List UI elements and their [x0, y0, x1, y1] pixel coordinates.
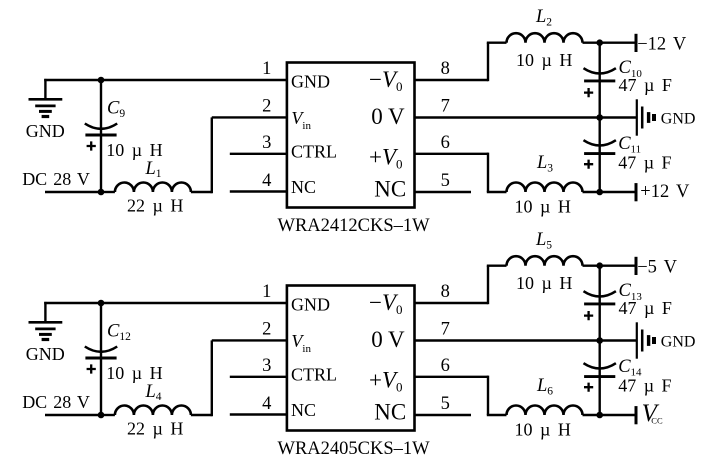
svg-text:7: 7 — [441, 320, 450, 340]
capacitor C13 lead upper — [599, 266, 601, 304]
svg-text:47 µ F: 47 µ F — [619, 298, 672, 318]
svg-text:22 µ H: 22 µ H — [127, 196, 183, 216]
wire corner to inductor L6 — [487, 414, 507, 416]
pin name Vin pin2 (top) — [291, 108, 311, 132]
wire pin 5 stub (top) — [415, 191, 472, 193]
terminal bar +12V (top) — [635, 183, 638, 201]
capacitor C10 polarity + — [584, 88, 593, 97]
pin number 2 (bottom) — [262, 320, 271, 340]
capacitor C12 polarity + — [87, 364, 96, 373]
pin number 4 (top) — [262, 171, 271, 191]
pin number 5 (bottom) — [441, 394, 450, 414]
wire input-ground corner to node (top) — [44, 79, 101, 81]
pin number 4 (bottom) — [262, 394, 271, 414]
svg-text:−5 V: −5 V — [637, 258, 677, 278]
svg-text:47 µ F: 47 µ F — [619, 75, 672, 95]
wire pin 2 (top) — [212, 116, 287, 118]
wire pin 3 stub (top) — [230, 153, 287, 155]
wire riser to pin 2 (bottom) — [211, 340, 213, 416]
inductor L6 — [507, 406, 583, 416]
svg-text:2: 2 — [262, 320, 271, 340]
svg-text:10 µ H: 10 µ H — [106, 363, 162, 383]
label C10 — [619, 58, 643, 80]
capacitor C10 lead upper — [599, 43, 601, 81]
pin name Vin pin2 (bottom) — [291, 331, 311, 355]
wire pin 8 to corner (top) — [415, 79, 489, 81]
svg-text:8: 8 — [441, 59, 450, 79]
pin number 5 (top) — [441, 171, 450, 191]
svg-text:DC 28 V: DC 28 V — [22, 392, 90, 412]
label +12V (top) — [640, 182, 690, 202]
svg-text:WRA2405CKS–1W: WRA2405CKS–1W — [278, 439, 431, 459]
capacitor C10 lead lower — [599, 81, 601, 118]
value 47 uF of C14 — [618, 376, 671, 396]
wire pin 6 to corner (top) — [415, 153, 489, 155]
value 47 uF of C13 — [619, 298, 672, 318]
wire pin 8 to corner (bottom) — [415, 302, 489, 304]
wire pin 6 to corner (bottom) — [415, 376, 489, 378]
node −5 V junction (bottom) — [596, 262, 603, 269]
label C14 — [618, 357, 642, 379]
pin number 1 (top) — [262, 59, 271, 79]
node VCC junction (bottom) — [596, 412, 603, 419]
wire corner to inductor L3 — [487, 191, 507, 193]
capacitor C11 lead upper — [599, 118, 601, 154]
pin name 0V pin7 (bottom) — [371, 327, 405, 352]
pin name NC pin4 (top) — [291, 177, 316, 197]
wire pin 5 stub (bottom) — [415, 414, 472, 416]
value 10 uH of L6 — [515, 420, 571, 440]
capacitor C14 lead lower — [599, 377, 601, 415]
wire DC 28V input to node (bottom) — [45, 414, 101, 416]
pin number 1 (bottom) — [262, 282, 271, 302]
capacitor C12 lead upper — [100, 303, 102, 358]
capacitor C13 polarity + — [584, 311, 593, 320]
node −12 V junction (top) — [596, 39, 603, 46]
pin name NC pin5 (bottom) — [374, 400, 406, 425]
svg-text:4: 4 — [262, 171, 271, 191]
value 10 uH of C9 — [106, 140, 162, 160]
label L4 — [145, 382, 162, 403]
wire riser to pin 2 (top) — [211, 117, 213, 193]
pin number 3 (top) — [262, 133, 271, 153]
svg-text:10 µ H: 10 µ H — [515, 197, 571, 217]
terminal bar VCC (bottom) — [635, 406, 638, 424]
svg-text:1: 1 — [262, 282, 271, 302]
svg-text:GND: GND — [291, 72, 330, 92]
value 22 uH of L4 — [127, 419, 183, 439]
label GND input (top) — [26, 121, 65, 141]
value 47 uF of C11 — [618, 153, 671, 173]
svg-text:6: 6 — [441, 133, 450, 153]
svg-text:7: 7 — [441, 97, 450, 117]
label −12 V (top) — [637, 35, 687, 55]
svg-text:NC: NC — [291, 400, 316, 420]
wire pin 4 stub (top) — [230, 190, 287, 192]
svg-text:GND: GND — [661, 334, 696, 351]
label GND input (bottom) — [26, 344, 65, 364]
svg-text:CTRL: CTRL — [291, 141, 337, 161]
wire pin 2 (bottom) — [212, 339, 287, 341]
label L1 — [145, 159, 162, 180]
svg-text:10 µ H: 10 µ H — [516, 50, 572, 70]
IC body WRA2412CKS–1W — [287, 63, 415, 208]
pin number 2 (top) — [262, 97, 271, 117]
wire input-ground corner to node (bottom) — [44, 302, 101, 304]
svg-text:10 µ H: 10 µ H — [516, 273, 572, 293]
svg-text:NC: NC — [374, 400, 406, 425]
ground output GND (top) — [637, 99, 654, 135]
value 10 uH of C12 — [106, 363, 162, 383]
svg-text:6: 6 — [441, 356, 450, 376]
pin name GND pin1 (bottom) — [291, 295, 330, 315]
svg-text:−12 V: −12 V — [637, 35, 687, 55]
svg-text:GND: GND — [26, 121, 65, 141]
wire L5 to terminal −5 V (bottom) — [583, 265, 637, 267]
pin number 7 (bottom) — [441, 320, 450, 340]
svg-text:NC: NC — [291, 177, 316, 197]
inductor L5 — [507, 256, 583, 266]
svg-text:47 µ F: 47 µ F — [618, 376, 671, 396]
svg-text:0 V: 0 V — [371, 327, 405, 352]
svg-text:DC 28 V: DC 28 V — [22, 169, 90, 189]
ground output GND (bottom) — [637, 322, 654, 358]
wire drop pin 6 to L3 row — [487, 153, 489, 192]
inductor L4 — [115, 406, 191, 416]
label −5 V (bottom) — [637, 258, 677, 278]
svg-text:3: 3 — [262, 133, 271, 153]
inductor L1 — [115, 183, 191, 193]
pin number 6 (bottom) — [441, 356, 450, 376]
svg-text:2: 2 — [262, 97, 271, 117]
wire L3 to terminal +12V (top) — [583, 191, 637, 193]
pin name -V0 pin8 (top) — [369, 67, 403, 94]
capacitor C11 — [584, 140, 616, 153]
capacitor C10 — [584, 68, 616, 81]
value 22 uH of L1 — [127, 196, 183, 216]
pin number 7 (top) — [441, 97, 450, 117]
svg-text:8: 8 — [441, 282, 450, 302]
label GND output (top) — [661, 111, 696, 128]
node 0V junction (top) — [596, 114, 603, 121]
svg-text:CTRL: CTRL — [291, 364, 337, 384]
svg-text:5: 5 — [441, 394, 450, 414]
value 47 uF of C10 — [619, 75, 672, 95]
pin number 3 (bottom) — [262, 356, 271, 376]
wire node to IC pin 1 (bottom) — [101, 302, 287, 304]
node input bottom junction (top) — [98, 189, 105, 196]
svg-text:0 V: 0 V — [371, 104, 405, 129]
label part number WRA2405CKS–1W — [278, 439, 431, 459]
value 10 uH of L5 — [516, 273, 572, 293]
svg-text:1: 1 — [262, 59, 271, 79]
svg-text:GND: GND — [26, 344, 65, 364]
wire L1 to pin 2 corner — [191, 191, 212, 193]
svg-text:5: 5 — [441, 171, 450, 191]
svg-text:4: 4 — [262, 394, 271, 414]
label C13 — [619, 281, 643, 303]
pin name CTRL pin3 (bottom) — [291, 364, 337, 384]
wire L2 to terminal −12 V (top) — [583, 42, 637, 44]
pin name +V0 pin6 (top) — [369, 144, 403, 171]
pin number 6 (top) — [441, 133, 450, 153]
capacitor C9 lead lower — [100, 135, 102, 192]
capacitor C12 lead lower — [100, 358, 102, 415]
node input top junction (top) — [98, 77, 105, 84]
inductor L3 — [507, 183, 583, 193]
svg-text:GND: GND — [291, 295, 330, 315]
capacitor C14 polarity + — [584, 383, 593, 392]
capacitor C13 lead lower — [599, 304, 601, 341]
label C11 — [618, 134, 641, 156]
ground input GND (top) — [29, 79, 63, 117]
wire 0V row pin 7 to ground (bottom) — [415, 339, 637, 341]
ground input GND (bottom) — [29, 302, 63, 340]
pin name GND pin1 (top) — [291, 72, 330, 92]
pin number 8 (bottom) — [441, 282, 450, 302]
capacitor C9 — [85, 124, 117, 136]
capacitor C14 lead upper — [599, 341, 601, 377]
wire pin 3 stub (bottom) — [230, 376, 287, 378]
wire node to IC pin 1 (top) — [101, 79, 287, 81]
node 0V junction (bottom) — [596, 337, 603, 344]
capacitor C14 — [584, 363, 616, 376]
wire corner to inductor L5 — [487, 265, 507, 267]
label VCC (bottom) — [642, 400, 663, 427]
label L2 — [535, 7, 552, 29]
label L6 — [536, 376, 553, 398]
wire corner to inductor L2 — [487, 42, 507, 44]
svg-text:10 µ H: 10 µ H — [515, 420, 571, 440]
svg-text:WRA2412CKS–1W: WRA2412CKS–1W — [278, 216, 431, 236]
capacitor C9 polarity + — [87, 141, 96, 150]
pin name NC pin4 (bottom) — [291, 400, 316, 420]
pin number 8 (top) — [441, 59, 450, 79]
pin name NC pin5 (top) — [374, 177, 406, 202]
capacitor C11 lead lower — [599, 154, 601, 192]
svg-text:3: 3 — [262, 356, 271, 376]
label C12 — [107, 321, 131, 343]
svg-text:47 µ F: 47 µ F — [618, 153, 671, 173]
svg-text:22 µ H: 22 µ H — [127, 419, 183, 439]
terminal bar −5 V (bottom) — [635, 257, 638, 275]
label GND output (bottom) — [661, 334, 696, 351]
node input top junction (bottom) — [98, 300, 105, 307]
capacitor C12 — [85, 347, 117, 359]
terminal bar −12 V (top) — [635, 34, 638, 52]
inductor L2 — [507, 33, 583, 42]
pin name -V0 pin8 (bottom) — [369, 290, 403, 317]
label L3 — [536, 153, 553, 175]
label L5 — [535, 230, 552, 252]
wire 0V row pin 7 to ground (top) — [415, 116, 637, 118]
wire node to inductor L1 — [101, 191, 115, 193]
svg-text:+12 V: +12 V — [640, 182, 690, 202]
value 10 uH of L3 — [515, 197, 571, 217]
capacitor C13 — [584, 291, 616, 304]
capacitor C11 polarity + — [584, 160, 593, 169]
label part number WRA2412CKS–1W — [278, 216, 431, 236]
wire pin 4 stub (bottom) — [230, 413, 287, 415]
capacitor C9 lead upper — [100, 80, 102, 135]
wire L4 to pin 2 corner — [191, 414, 212, 416]
node +12V junction (top) — [596, 189, 603, 196]
wire riser pin 8 to L2 row — [487, 43, 489, 81]
wire DC 28V input to node (top) — [45, 191, 101, 193]
wire riser pin 8 to L5 row — [487, 266, 489, 305]
label C9 — [107, 98, 125, 120]
pin name +V0 pin6 (bottom) — [369, 367, 403, 394]
wire node to inductor L4 — [101, 414, 115, 416]
pin name CTRL pin3 (top) — [291, 141, 337, 161]
pin name 0V pin7 (top) — [371, 104, 405, 129]
wire drop pin 6 to L6 row — [487, 376, 489, 415]
value 10 uH of L2 — [516, 50, 572, 70]
svg-text:NC: NC — [374, 177, 406, 202]
node input bottom junction (bottom) — [98, 412, 105, 419]
IC body WRA2405CKS–1W — [287, 286, 415, 431]
label DC 28 V input net (bottom) — [22, 392, 90, 412]
label DC 28 V input net (top) — [22, 169, 90, 189]
svg-text:GND: GND — [661, 111, 696, 128]
svg-text:10 µ H: 10 µ H — [106, 140, 162, 160]
wire L6 to terminal VCC (bottom) — [583, 414, 637, 416]
